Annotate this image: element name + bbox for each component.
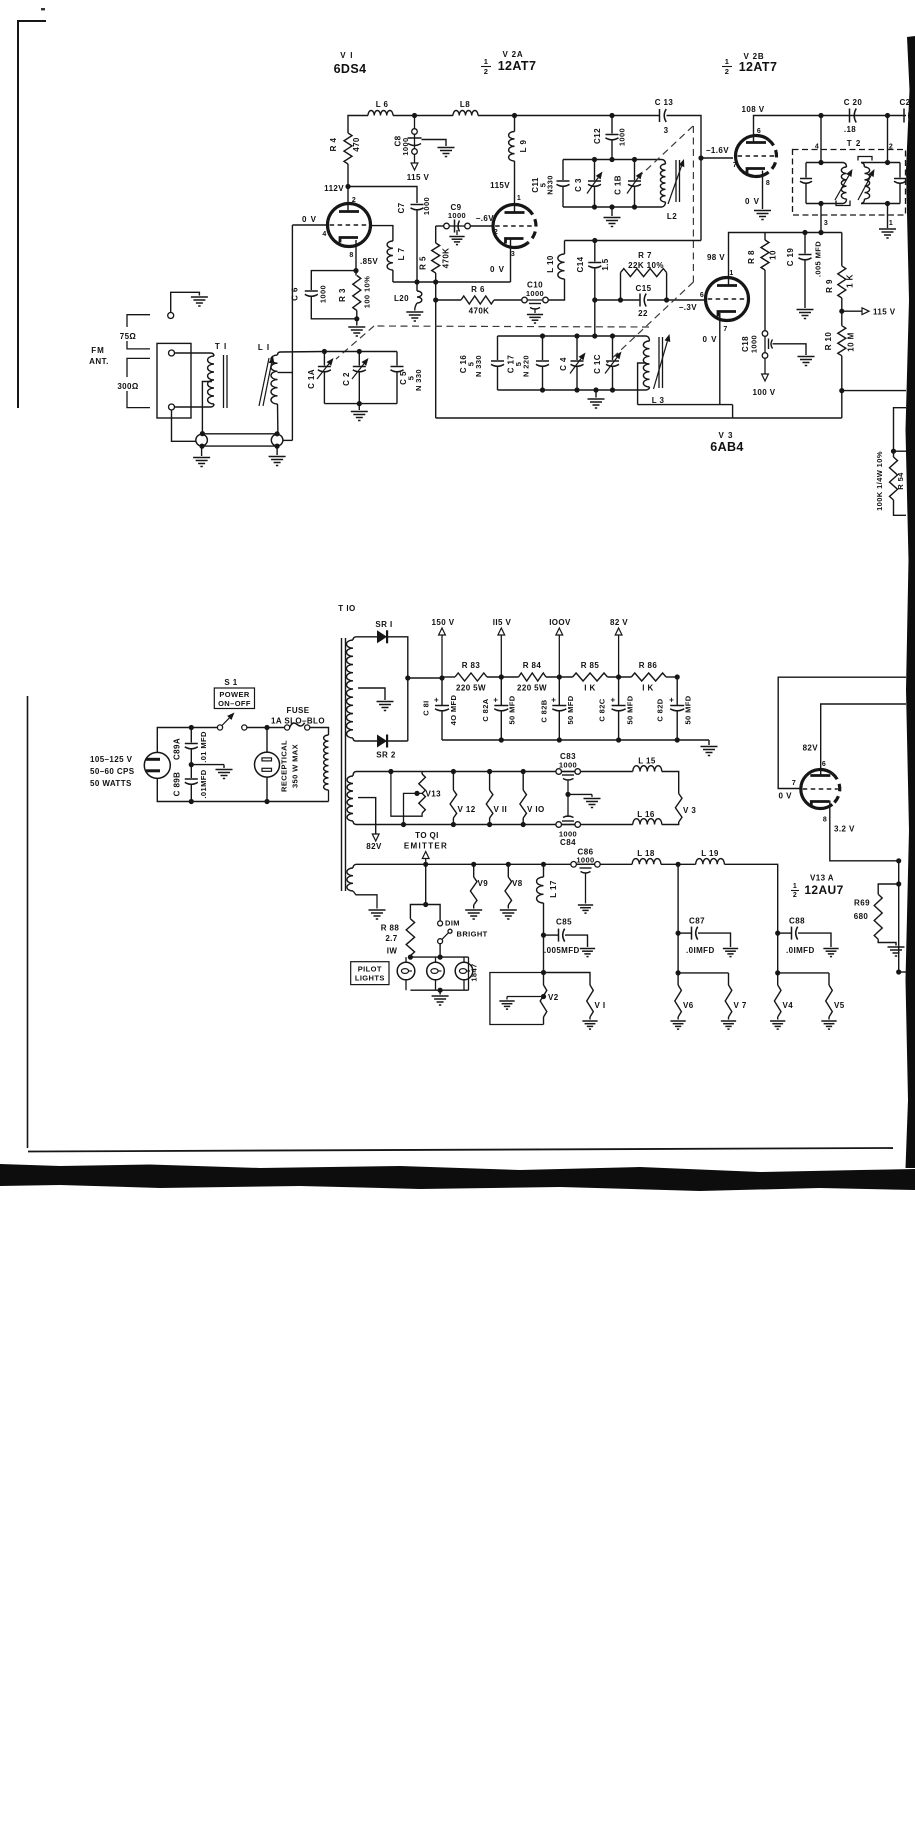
rectifier SR2 — [377, 735, 387, 748]
label C17 n2 — [522, 355, 531, 377]
label C82B — [540, 699, 549, 722]
label C89A — [173, 738, 182, 760]
wire rail to R83 — [442, 676, 455, 678]
switch S1 — [217, 713, 247, 731]
node h2 V12 top — [451, 769, 456, 774]
node T2 right bot — [885, 201, 890, 206]
svg-text:10: 10 — [769, 250, 778, 260]
inductor L10 — [558, 254, 565, 279]
svg-text:+: + — [434, 696, 439, 705]
svg-text:V 3: V 3 — [683, 806, 696, 815]
svg-text:3: 3 — [664, 126, 669, 135]
wire lamp rail bottom — [410, 957, 468, 990]
node h2 V13wire — [388, 769, 393, 774]
node C8 top — [412, 113, 417, 118]
ground C85 — [580, 949, 595, 957]
node shield rb — [275, 444, 280, 449]
node h3 V9 — [471, 862, 476, 867]
terminal ground antenna — [168, 292, 200, 318]
label C14 value — [601, 258, 610, 270]
ground V8 — [500, 910, 517, 919]
node C87 — [676, 931, 681, 936]
wire R54 bottom — [894, 500, 907, 515]
svg-text:C 89B: C 89B — [173, 772, 182, 797]
wire heater rail 2 top — [356, 771, 633, 773]
svg-text:−.3V: −.3V — [679, 303, 698, 312]
svg-text:.0IMFD: .0IMFD — [786, 946, 815, 955]
label V3 type 6AB4 — [710, 440, 744, 454]
inductor L18 — [632, 859, 661, 865]
svg-text:1000: 1000 — [526, 289, 544, 298]
wire L1 tap — [278, 372, 293, 374]
arrow 115V below C8 — [411, 154, 418, 170]
label L2 — [667, 212, 677, 221]
svg-text:L8: L8 — [460, 100, 470, 109]
svg-text:FM: FM — [91, 346, 105, 355]
node 150V — [439, 675, 444, 680]
ground L20 — [406, 303, 423, 321]
resistor R9 — [838, 233, 846, 299]
terminal T1 upper — [169, 350, 175, 356]
border corner top-left — [18, 21, 46, 408]
svg-text:L 9: L 9 — [519, 140, 528, 153]
wire T1 lower — [175, 406, 212, 408]
wire tank left edge — [562, 160, 564, 208]
wire L15 to V3 heater — [662, 772, 679, 794]
svg-text:2: 2 — [484, 67, 489, 76]
wire V1 grid left — [292, 224, 327, 226]
label V10 — [527, 805, 545, 814]
wire lamp rail top — [410, 956, 468, 958]
svg-text:2: 2 — [889, 144, 893, 151]
svg-text:.0IMFD: .0IMFD — [686, 946, 715, 955]
wire osc tank top rail — [498, 335, 647, 337]
label R5 — [419, 256, 428, 270]
label R7 — [638, 251, 652, 260]
node R10 out — [839, 388, 844, 393]
label C84 — [560, 838, 576, 847]
pin 4 V1 — [322, 231, 326, 238]
label V8 — [512, 879, 523, 888]
inductor L19 — [696, 859, 725, 865]
label C89B — [173, 772, 182, 797]
label V5 — [834, 1001, 845, 1010]
ground R3 — [348, 319, 365, 336]
node h3 L17 — [541, 862, 546, 867]
label 3.2V — [834, 825, 855, 834]
wire V4 V5 rail — [778, 972, 829, 974]
receptacle — [255, 752, 280, 777]
svg-text:3.2 V: 3.2 V — [834, 825, 855, 834]
wire R4 to V1 plate — [347, 164, 349, 212]
dashed gang D4 — [374, 326, 649, 327]
resistor R54 — [890, 451, 898, 500]
arrow 100V below C18 — [762, 358, 769, 381]
label R3 value — [363, 276, 372, 308]
svg-text:RECEPTICAL: RECEPTICAL — [280, 740, 289, 792]
svg-text:1: 1 — [725, 57, 730, 66]
label L19 — [701, 849, 719, 858]
svg-text:680: 680 — [854, 912, 869, 921]
wire V2B cathode — [762, 171, 764, 210]
node T2 left bot — [818, 201, 823, 206]
svg-text:R 7: R 7 — [638, 251, 652, 260]
node tank C3 bot — [592, 204, 597, 209]
wire V3 cathode down — [719, 313, 721, 405]
svg-text:DIM: DIM — [445, 919, 460, 928]
node right bottom — [896, 969, 901, 974]
node ant tank left — [322, 349, 327, 354]
capacitor C82B — [551, 677, 566, 740]
wire SR2 out — [388, 740, 408, 742]
svg-text:R 4: R 4 — [329, 138, 338, 152]
capacitor C20 — [850, 109, 857, 123]
svg-text:1: 1 — [793, 883, 797, 890]
wire grid bus y240 — [565, 240, 702, 242]
svg-text:C7: C7 — [397, 202, 406, 213]
transformer T1 box — [157, 343, 191, 418]
svg-text:1 K: 1 K — [846, 274, 855, 288]
dashed gang vertical — [692, 126, 694, 282]
label FM ANT — [89, 346, 109, 366]
label V2A designator — [503, 50, 524, 59]
inductor L17 — [537, 864, 544, 935]
svg-text:100 V: 100 V — [753, 388, 776, 397]
svg-text:R 83: R 83 — [462, 661, 481, 670]
wire cathode return — [733, 417, 842, 419]
wire T2 pin4 — [820, 116, 822, 163]
inductor L2 — [660, 160, 665, 208]
wire C9 to R5 — [436, 225, 444, 227]
svg-text:C 2: C 2 — [342, 372, 351, 386]
arrow T2 left slug — [835, 169, 853, 200]
arrow 82V tap — [372, 834, 379, 841]
label C19 — [786, 248, 795, 267]
label L16 — [637, 810, 655, 819]
ground V5 — [821, 1017, 836, 1029]
wire V2 tap — [507, 996, 544, 998]
svg-text:V2: V2 — [548, 993, 559, 1002]
svg-text:R69: R69 — [854, 899, 870, 908]
wire HV bottom — [356, 740, 377, 742]
wire BRIGHT down — [439, 944, 441, 957]
ground shield right — [269, 446, 286, 465]
node osc C1C top — [610, 333, 615, 338]
label L17 — [549, 880, 558, 898]
label C13 — [655, 98, 674, 107]
svg-text:T I: T I — [215, 342, 227, 351]
T2 right tank box — [861, 163, 906, 204]
svg-text:300Ω: 300Ω — [117, 382, 139, 391]
svg-text:0 V: 0 V — [778, 792, 792, 801]
wire osc bottom rail — [436, 417, 733, 419]
label 0V V13A — [778, 792, 792, 801]
node lamp top — [438, 955, 443, 960]
label C5 — [399, 371, 408, 385]
capacitor C21 edge — [904, 109, 911, 123]
wire fuse to primary — [310, 728, 329, 734]
label R5 value — [442, 248, 451, 269]
label L7 — [397, 248, 406, 261]
node fb B — [557, 737, 562, 742]
capacitor C15 — [640, 294, 646, 307]
capacitor C9 feedthrough — [444, 220, 471, 233]
svg-text:8: 8 — [349, 252, 353, 259]
capacitor C88 — [778, 927, 798, 940]
svg-text:6DS4: 6DS4 — [334, 62, 367, 76]
svg-text:R 5: R 5 — [419, 256, 428, 270]
label 75 ohm — [120, 332, 137, 341]
node C82D top — [675, 674, 680, 679]
svg-text:115 V: 115 V — [873, 308, 896, 317]
resistor R84 — [519, 673, 547, 681]
svg-text:22K 10%: 22K 10% — [628, 261, 664, 270]
label R6 value — [469, 307, 490, 316]
wire V3 heater to L16 — [662, 822, 679, 825]
svg-text:PILOT: PILOT — [358, 965, 382, 974]
tube V3 — [706, 278, 749, 321]
svg-text:1000: 1000 — [576, 856, 594, 865]
wire V13A cathode — [830, 801, 899, 861]
svg-text:V 3: V 3 — [718, 431, 733, 440]
label L1 — [258, 343, 270, 352]
border bottom thin line — [28, 1148, 893, 1152]
inductor L16 — [633, 819, 662, 825]
label R88 — [381, 924, 400, 956]
arrow TO Q1 — [422, 852, 429, 865]
node R7 right — [664, 297, 669, 302]
svg-text:R 54: R 54 — [896, 472, 905, 490]
svg-text:+: + — [611, 696, 616, 705]
pin 7 V2B — [733, 162, 737, 169]
svg-text:1.5: 1.5 — [601, 258, 610, 270]
arrow L3 slug — [654, 334, 671, 389]
svg-text:1: 1 — [517, 195, 521, 202]
node T2pin3 bus — [818, 230, 823, 235]
capacitor C83 feedthrough — [556, 769, 581, 780]
arrow 100V rail — [556, 628, 563, 677]
wire C6 top — [311, 271, 356, 290]
label ON-OFF — [218, 699, 251, 708]
ground shield left — [193, 446, 210, 466]
svg-text:I K: I K — [584, 684, 595, 693]
wire 112V to C7 — [348, 187, 417, 204]
svg-text:C 8I: C 8I — [422, 700, 431, 715]
ground C86 — [578, 905, 593, 913]
svg-text:98 V: 98 V — [707, 253, 725, 262]
label R83 — [462, 661, 481, 670]
wire switch to fuse — [247, 727, 285, 729]
svg-text:C84: C84 — [560, 838, 576, 847]
svg-text:R 84: R 84 — [523, 661, 542, 670]
label V2A half fraction — [481, 57, 491, 76]
label C1C — [593, 354, 602, 374]
heater V8 — [505, 864, 512, 908]
svg-text:C12: C12 — [593, 128, 602, 144]
label EMITTER — [404, 842, 448, 851]
wire 390 to edge — [842, 390, 906, 392]
scan mark — [41, 8, 45, 10]
label R85 value — [584, 684, 595, 693]
pin 6 V13A — [822, 761, 826, 768]
node tank C1B bot — [632, 204, 637, 209]
node 82V rail — [616, 674, 621, 679]
label .85V — [360, 257, 378, 266]
wire osc tank left edge — [497, 336, 499, 390]
svg-text:2: 2 — [352, 197, 356, 204]
svg-text:12AU7: 12AU7 — [804, 883, 843, 897]
svg-text:C 20: C 20 — [844, 98, 863, 107]
capacitor C82C — [611, 677, 626, 740]
label C16 n1 — [467, 362, 476, 367]
svg-text:7: 7 — [792, 780, 796, 787]
capacitor C4 variable — [570, 336, 586, 390]
shield circle left — [196, 434, 208, 446]
label 98V — [707, 253, 725, 262]
label DIM — [445, 919, 460, 928]
box power onoff — [214, 688, 254, 709]
node R54 tap — [891, 449, 896, 454]
capacitor C7 — [411, 205, 424, 210]
T2 left coil — [841, 163, 846, 204]
svg-text:3: 3 — [511, 251, 515, 258]
wire receptacle top — [266, 728, 268, 753]
svg-text:50 MFD: 50 MFD — [566, 695, 575, 724]
svg-text:C 82D: C 82D — [656, 698, 665, 721]
wire to R88 — [410, 905, 425, 919]
inductor L15 — [633, 766, 662, 772]
svg-text:V 7: V 7 — [734, 1001, 747, 1010]
ground V7 — [721, 1017, 736, 1029]
label FUSE — [287, 706, 310, 715]
node SR out — [405, 675, 410, 680]
border left lower — [27, 696, 29, 1148]
svg-text:N 330: N 330 — [474, 355, 483, 377]
capacitor C89B — [185, 765, 198, 802]
node C83 stem — [565, 792, 570, 797]
wire winding3 bottom — [353, 891, 377, 909]
ground C87 — [723, 949, 738, 957]
resistor R88 — [406, 919, 414, 956]
pin 1 V3 — [729, 270, 733, 277]
wire C83 stem — [567, 780, 569, 818]
label C85 value — [544, 946, 580, 955]
label C6 value — [319, 285, 328, 303]
label C7 value — [422, 197, 431, 215]
wire ant tank top rail — [324, 351, 397, 353]
transformer T2 dashed box — [793, 150, 906, 216]
wire R8 to C18 — [764, 270, 766, 331]
capacitor C19 — [799, 233, 812, 309]
svg-text:50–60 CPS: 50–60 CPS — [90, 767, 135, 776]
node C14 top — [592, 238, 597, 243]
svg-text:N 330: N 330 — [414, 369, 423, 391]
pin 6 V2B — [757, 128, 761, 135]
capacitor C82D — [669, 677, 684, 740]
label V1 designator — [340, 51, 353, 60]
label C1B — [614, 175, 623, 195]
label C5 n2 — [414, 369, 423, 391]
capacitor C3 variable — [587, 160, 603, 208]
wire V13A pin6 net — [821, 704, 906, 777]
svg-text:T IO: T IO — [338, 604, 356, 613]
label R7 value — [628, 261, 664, 270]
label R84 — [523, 661, 542, 670]
ground ant tank — [351, 404, 368, 421]
node h3 V8 — [506, 862, 511, 867]
inductor L6 — [368, 111, 393, 116]
svg-text:10 M: 10 M — [847, 332, 856, 351]
inductor L20 — [417, 282, 422, 303]
node R3 bottom — [354, 316, 359, 321]
node C88 — [775, 931, 780, 936]
label R69 — [854, 899, 870, 908]
svg-text:0 V: 0 V — [745, 197, 760, 206]
wire heater rail 2 bottom — [356, 824, 633, 826]
wire receptacle bottom — [266, 777, 268, 801]
wire grid line to shield — [283, 439, 292, 441]
fuse F1 — [285, 723, 310, 730]
svg-text:82 V: 82 V — [610, 618, 628, 627]
wire R83 R84 — [487, 676, 519, 678]
label R8 value — [769, 250, 778, 260]
node osc feed top — [592, 333, 597, 338]
svg-text:.005 MFD: .005 MFD — [814, 241, 823, 277]
label C16 n2 — [474, 355, 483, 377]
svg-text:−.6V: −.6V — [476, 214, 495, 223]
wire V2B plate bus — [754, 116, 907, 143]
svg-text:C87: C87 — [689, 917, 705, 926]
capacitor C1B variable — [627, 160, 643, 208]
inductor L8 — [453, 111, 478, 116]
label C82C — [598, 698, 607, 721]
svg-text:4: 4 — [322, 231, 326, 238]
svg-text:L 18: L 18 — [637, 849, 655, 858]
svg-text:ANT.: ANT. — [89, 357, 109, 366]
label C18 value — [750, 335, 759, 353]
arrow L1 slug — [259, 356, 274, 406]
label L6 — [376, 100, 389, 109]
heater V13 — [391, 772, 426, 817]
wire L10 top — [564, 241, 566, 255]
resistor R69 — [874, 884, 899, 939]
wire 150V node — [408, 677, 442, 679]
label C19 value — [814, 241, 823, 277]
label -.6V — [476, 214, 495, 223]
label C6 — [291, 287, 300, 301]
label C8 value — [401, 137, 410, 155]
switch DIM contact — [438, 921, 443, 926]
wire C7 to rail — [416, 210, 418, 283]
node V2 loop — [541, 970, 546, 975]
label V11 — [494, 805, 508, 814]
inductor L9 — [509, 116, 515, 162]
svg-text:V 12: V 12 — [458, 805, 476, 814]
label T2 — [847, 139, 862, 148]
label S1 — [224, 678, 237, 687]
capacitor C18 feedthrough — [762, 331, 772, 359]
svg-text:100K 1/4W 10%: 100K 1/4W 10% — [875, 451, 884, 511]
node bottom C89 — [189, 799, 194, 804]
wire C8 to ground — [422, 140, 447, 147]
svg-text:C 82B: C 82B — [540, 699, 549, 722]
label C12 value — [618, 128, 627, 146]
label C7 — [397, 202, 406, 213]
label R4 — [329, 138, 338, 152]
label 115V at V2A — [490, 181, 510, 190]
label C20 value — [844, 125, 856, 134]
node T2 left top — [818, 160, 823, 165]
